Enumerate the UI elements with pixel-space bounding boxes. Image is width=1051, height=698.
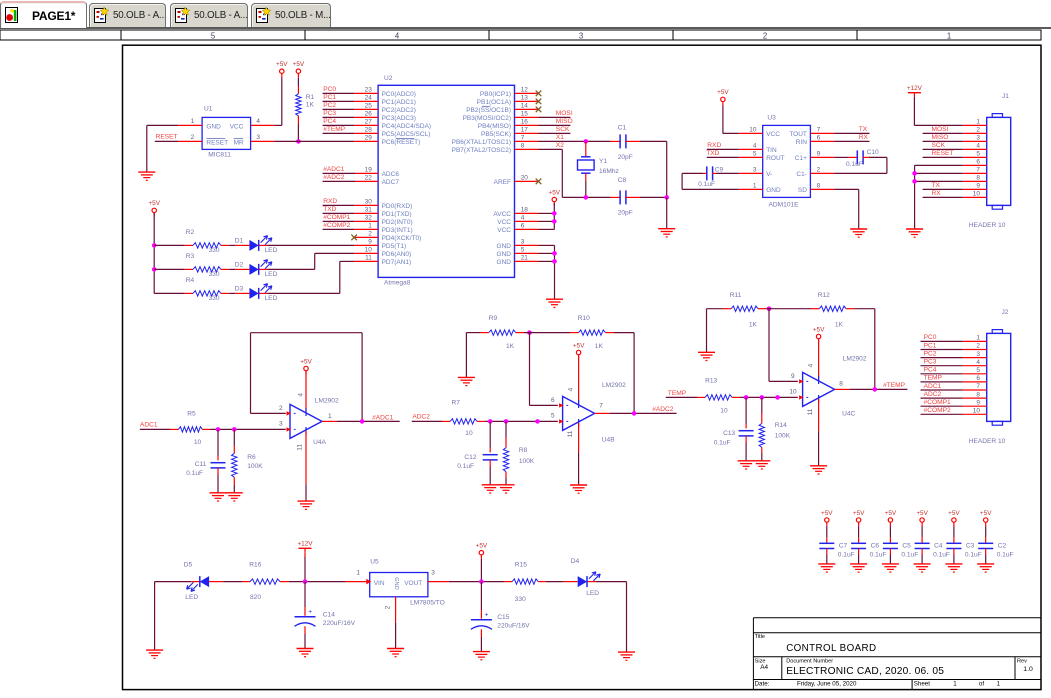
svg-text:24: 24 xyxy=(365,95,373,102)
svg-text:13: 13 xyxy=(521,95,529,102)
svg-text:PD0(RXD): PD0(RXD) xyxy=(382,203,413,210)
svg-text:330: 330 xyxy=(209,271,220,278)
svg-text:U1: U1 xyxy=(204,106,213,113)
svg-text:R14: R14 xyxy=(775,422,787,429)
svg-text:21: 21 xyxy=(521,255,529,262)
junction R9/R10 xyxy=(527,330,532,335)
wire TXD to U3 ROUT xyxy=(707,156,739,158)
U2 pin 11 PD7(AN1) xyxy=(354,260,378,262)
svg-text:10: 10 xyxy=(973,408,981,415)
wire C8 to right rail xyxy=(640,196,667,198)
U2 pin 3 GND xyxy=(515,244,539,246)
U2 pin 25 PC2(ADC2) xyxy=(354,108,378,110)
title block frame xyxy=(753,617,1041,619)
svg-text:3: 3 xyxy=(521,239,525,246)
wire +5V down to rail xyxy=(480,559,482,582)
svg-text:1K: 1K xyxy=(835,322,844,329)
capacitor C6 xyxy=(858,526,860,537)
resistor R16 xyxy=(242,581,250,583)
wire X2 (PB7 down and right) xyxy=(539,148,563,150)
svg-text:VCC: VCC xyxy=(497,219,511,226)
svg-text:ADC1: ADC1 xyxy=(924,383,942,390)
svg-text:330: 330 xyxy=(515,596,526,603)
svg-text:+5V: +5V xyxy=(293,61,305,68)
wire TEMP (J2) xyxy=(921,381,963,383)
op-amp U4B xyxy=(563,396,595,430)
svg-text:PB0(ICP1): PB0(ICP1) xyxy=(480,91,511,98)
U2 pin 18 AVCC xyxy=(515,212,539,214)
wire RX (J1) xyxy=(923,196,963,198)
svg-text:C1: C1 xyxy=(618,125,627,132)
svg-text:4: 4 xyxy=(521,215,525,222)
svg-text:AREF: AREF xyxy=(494,179,511,186)
svg-text:6: 6 xyxy=(976,159,980,166)
svg-text:VCC: VCC xyxy=(766,131,780,138)
resistor R3 xyxy=(185,268,193,270)
svg-text:C7: C7 xyxy=(839,543,848,550)
svg-text:1: 1 xyxy=(328,413,332,420)
svg-text:0.1uF: 0.1uF xyxy=(186,470,203,477)
svg-text:Title: Title xyxy=(755,634,765,640)
svg-text:2: 2 xyxy=(976,343,980,350)
svg-text:7: 7 xyxy=(599,403,603,410)
no-connect X on U2 pin 20 (AREF) xyxy=(536,179,542,185)
svg-text:10: 10 xyxy=(465,430,473,437)
svg-text:5: 5 xyxy=(521,247,525,254)
svg-text:SCK: SCK xyxy=(556,126,570,133)
svg-text:23: 23 xyxy=(365,87,373,94)
svg-text:C3: C3 xyxy=(966,543,975,550)
ground (J1) xyxy=(906,228,923,230)
svg-text:LED: LED xyxy=(265,271,278,278)
svg-text:HEADER 10: HEADER 10 xyxy=(969,438,1006,445)
svg-text:#COMP1: #COMP1 xyxy=(323,214,350,221)
svg-text:GND: GND xyxy=(766,187,781,194)
J2 pin 2 xyxy=(963,349,987,351)
wire RESET to U1 pin2 xyxy=(155,140,178,142)
svg-text:3: 3 xyxy=(976,351,980,358)
resistor R1 xyxy=(297,78,299,86)
svg-text:0.1uF: 0.1uF xyxy=(698,181,715,188)
svg-text:LM2902: LM2902 xyxy=(843,355,867,362)
svg-text:15: 15 xyxy=(521,111,529,118)
wire R4 to D3 xyxy=(229,292,235,294)
J1 pin 5 xyxy=(963,156,987,158)
svg-text:+5V: +5V xyxy=(276,61,288,68)
U1 pin 1 xyxy=(178,124,202,126)
svg-text:MIC811: MIC811 xyxy=(208,152,231,159)
svg-text:10: 10 xyxy=(365,247,373,254)
svg-text:R1: R1 xyxy=(306,94,315,101)
U2 pin 6 VCC xyxy=(515,228,539,230)
U2 pin 4 VCC xyxy=(515,220,539,222)
capacitor C2 xyxy=(985,526,987,537)
svg-text:2: 2 xyxy=(191,134,195,141)
svg-text:4: 4 xyxy=(976,143,980,150)
U2 pin 19 ADC6 xyxy=(354,172,378,174)
LED D3 xyxy=(235,292,249,294)
wire ADC1 (J2) xyxy=(921,389,963,391)
U2 pin 17 PB5(SCK) xyxy=(515,132,539,134)
svg-text:+5V: +5V xyxy=(948,510,960,517)
svg-text:1: 1 xyxy=(356,569,360,576)
wire ADC1 to R5 xyxy=(140,428,171,430)
U2 pin 5 GND xyxy=(515,252,539,254)
svg-text:GND: GND xyxy=(497,259,512,266)
svg-text:HEADER 10: HEADER 10 xyxy=(969,222,1006,229)
wire R16 to +12V junction xyxy=(289,581,346,583)
connector J2 body xyxy=(987,333,1011,421)
capacitor C5 xyxy=(889,526,891,537)
junction R6 tap xyxy=(232,427,237,432)
svg-text:0.1uF: 0.1uF xyxy=(714,439,731,446)
svg-text:PD5(T1): PD5(T1) xyxy=(382,243,407,250)
svg-text:3: 3 xyxy=(279,421,283,428)
svg-text:ADC6: ADC6 xyxy=(382,171,400,178)
svg-text:#ADC2: #ADC2 xyxy=(652,406,674,413)
svg-text:PB5(SCK): PB5(SCK) xyxy=(481,131,511,138)
svg-text:4: 4 xyxy=(298,393,305,397)
U1 pin 2 xyxy=(178,140,202,142)
svg-text:+: + xyxy=(485,612,489,619)
svg-text:PC6(RESET): PC6(RESET) xyxy=(382,139,421,146)
U3 pin 6 RIN xyxy=(810,140,834,142)
wire U1 pin1 to ground xyxy=(147,124,178,126)
U2 pin 13 PB1(OC1A) xyxy=(515,100,539,102)
resistor R2 xyxy=(185,244,193,246)
svg-text:5: 5 xyxy=(211,31,216,40)
ground (D5) xyxy=(146,649,163,651)
svg-text:ADC7: ADC7 xyxy=(382,179,400,186)
U2 pin 7 PB6(XTAL1/TOSC1) xyxy=(515,140,539,142)
svg-text:LM2902: LM2902 xyxy=(315,397,339,404)
svg-text:RESET: RESET xyxy=(156,134,178,141)
U2 pin 20 AREF xyxy=(515,180,539,182)
op-amp U4A xyxy=(290,404,322,438)
resistor R12 xyxy=(811,308,819,310)
ground (C13) xyxy=(738,460,755,462)
U3 pin 4 TIN xyxy=(739,148,763,150)
svg-text:PC0: PC0 xyxy=(323,86,336,93)
svg-text:0.1uF: 0.1uF xyxy=(965,551,982,558)
capacitor C11 xyxy=(217,429,219,456)
wire RESET (J1) xyxy=(923,156,963,158)
wire MISO (J1) xyxy=(923,140,963,142)
svg-text:1: 1 xyxy=(947,31,951,40)
wire SCK (J1) xyxy=(923,148,963,150)
ground (U3 SD) xyxy=(850,228,867,230)
svg-text:PD6(AN0): PD6(AN0) xyxy=(382,251,412,258)
wire R9-R10 row xyxy=(524,332,570,334)
U2 pin 8 PB7(XTAL2/TOSC2) xyxy=(515,148,539,150)
U3 pin 9 C1+ xyxy=(810,156,834,158)
svg-text:TOUT: TOUT xyxy=(789,131,807,138)
svg-text:RESET: RESET xyxy=(932,150,954,157)
svg-text:100K: 100K xyxy=(519,458,535,465)
svg-text:#ADC2: #ADC2 xyxy=(323,174,345,181)
svg-text:1: 1 xyxy=(191,118,195,125)
svg-text:4: 4 xyxy=(395,31,400,40)
svg-text:4: 4 xyxy=(753,143,757,150)
svg-text:#COMP2: #COMP2 xyxy=(924,407,951,414)
svg-text:ADC2: ADC2 xyxy=(924,391,942,398)
svg-text:7: 7 xyxy=(976,167,980,174)
U4C output pin 8 xyxy=(835,388,850,390)
wire J1 pin6 pin7 pin8 to ground xyxy=(915,164,963,166)
svg-text:100K: 100K xyxy=(247,463,263,470)
wire R13 to opamp U4C pin10 xyxy=(740,396,798,398)
U5 pin 2 GND xyxy=(395,597,397,623)
U4A pin 11 power to ground xyxy=(305,427,307,435)
svg-text:5: 5 xyxy=(976,367,980,374)
U2 pin 12 PB0(ICP1) xyxy=(515,92,539,94)
junction C12 tap xyxy=(488,419,493,424)
ground (R6) xyxy=(226,492,243,494)
junction J1 pin8 xyxy=(912,179,917,184)
svg-text:C14: C14 xyxy=(323,611,335,618)
LED D4 xyxy=(564,581,578,583)
wire PC2 (J2) xyxy=(921,357,963,359)
svg-text:VCC: VCC xyxy=(497,227,511,234)
resistor R6 xyxy=(233,429,235,445)
J1 pin 7 xyxy=(963,172,987,174)
U4C pin 4 power xyxy=(818,339,820,380)
svg-text:+5V: +5V xyxy=(853,510,865,517)
svg-text:31: 31 xyxy=(365,207,373,214)
svg-text:+: + xyxy=(308,609,312,616)
U4C pin 11 power to ground xyxy=(818,395,820,403)
svg-text:SCK: SCK xyxy=(932,142,946,149)
wire bottom rail left end xyxy=(155,581,192,583)
wire R3 to D2 xyxy=(229,268,235,270)
svg-text:V-: V- xyxy=(766,171,772,178)
crystal Y1 xyxy=(585,141,587,157)
svg-text:11: 11 xyxy=(807,408,814,415)
svg-text:9: 9 xyxy=(817,151,821,158)
wire #ADC2 (ADC7) xyxy=(323,180,355,182)
svg-text:U5: U5 xyxy=(370,558,379,565)
svg-text:+12V: +12V xyxy=(297,541,313,548)
ground (C5) xyxy=(882,563,899,565)
svg-text:28: 28 xyxy=(365,127,373,134)
svg-text:8: 8 xyxy=(839,381,843,388)
wire R12 to output rail xyxy=(854,308,874,310)
svg-text:1: 1 xyxy=(997,681,1001,688)
svg-text:C9: C9 xyxy=(715,167,724,174)
tab 50.OLB 1 xyxy=(89,3,166,27)
capacitor C1 xyxy=(610,140,621,142)
svg-text:18: 18 xyxy=(521,207,529,214)
svg-text:SD: SD xyxy=(798,187,807,194)
svg-text:R8: R8 xyxy=(519,447,528,454)
svg-text:#ADC1: #ADC1 xyxy=(323,166,345,173)
wire C10 to U3 C1- xyxy=(869,156,887,158)
wire +12V to J1 pin1 xyxy=(913,97,915,126)
svg-text:9: 9 xyxy=(976,399,980,406)
U1 pin 4 xyxy=(251,124,275,126)
capacitor C4 xyxy=(921,526,923,537)
svg-text:LED: LED xyxy=(586,590,599,597)
wire +12V down xyxy=(304,552,306,557)
junction VCC pin4 xyxy=(552,219,557,224)
svg-text:RX: RX xyxy=(859,134,869,141)
LED D2 xyxy=(235,268,249,270)
wire #COMP2 (J2) xyxy=(921,413,963,415)
wire feedback riser to U4C pin9 xyxy=(768,309,770,382)
svg-text:RX: RX xyxy=(932,190,942,197)
svg-text:C8: C8 xyxy=(618,177,627,184)
ground (U4A pin11) xyxy=(298,500,315,502)
svg-text:PC1(ADC1): PC1(ADC1) xyxy=(382,99,416,106)
svg-text:2: 2 xyxy=(279,405,283,412)
svg-text:2: 2 xyxy=(976,127,980,134)
wire RX from U3 RIN xyxy=(834,140,869,142)
svg-text:PC0: PC0 xyxy=(924,334,937,341)
svg-text:MOSI: MOSI xyxy=(932,126,949,133)
J2 pin 6 xyxy=(963,381,987,383)
J2 pin 5 xyxy=(963,373,987,375)
svg-text:LED: LED xyxy=(185,594,198,601)
ground (C3) xyxy=(945,563,962,565)
svg-text:+5V: +5V xyxy=(573,342,585,349)
wire R9 left to ground xyxy=(465,333,467,378)
junction AVCC xyxy=(552,211,557,216)
junction U4B pin5 wire xyxy=(535,419,540,424)
capacitor C14 (polarized) xyxy=(304,582,306,607)
svg-text:C2: C2 xyxy=(998,543,1007,550)
svg-text:U3: U3 xyxy=(767,115,776,122)
svg-text:Atmega8: Atmega8 xyxy=(384,279,411,286)
svg-text:+5V: +5V xyxy=(148,200,160,207)
svg-text:PC2: PC2 xyxy=(323,102,336,109)
svg-text:7: 7 xyxy=(976,383,980,390)
ground (U4B pin11) xyxy=(570,484,587,486)
svg-text:1: 1 xyxy=(753,183,757,190)
svg-text:CONTROL BOARD: CONTROL BOARD xyxy=(786,643,876,654)
svg-text:PC4: PC4 xyxy=(323,118,336,125)
J1 pin 10 xyxy=(963,196,987,198)
wire D1 to U2 PD5 xyxy=(267,244,354,246)
svg-text:C15: C15 xyxy=(497,614,509,621)
resistor R13 xyxy=(697,396,705,398)
ground (C12) xyxy=(482,484,499,486)
wire U5 out to +5V junction xyxy=(449,581,504,583)
U2 pin 27 PC4(ADC4/SDA) xyxy=(354,124,378,126)
svg-text:2: 2 xyxy=(384,605,391,609)
svg-text:330: 330 xyxy=(209,295,220,302)
junction X1/Y1 top xyxy=(584,139,589,144)
svg-text:32: 32 xyxy=(365,215,373,222)
svg-text:PC4(ADC4/SDA): PC4(ADC4/SDA) xyxy=(382,123,431,130)
svg-text:20pF: 20pF xyxy=(618,210,633,217)
svg-text:PD3(INT1): PD3(INT1) xyxy=(382,227,413,234)
svg-text:0.1uF: 0.1uF xyxy=(870,551,887,558)
wire PC4 xyxy=(323,124,355,126)
ground (U1) xyxy=(138,171,155,173)
svg-text:R15: R15 xyxy=(515,561,527,568)
svg-text:7: 7 xyxy=(521,135,525,142)
U1 pin 3 xyxy=(251,140,275,142)
svg-text:Rev: Rev xyxy=(1017,659,1027,665)
ground (R11) xyxy=(698,351,715,353)
wire R10 to output rail xyxy=(614,332,634,334)
J2 pin 8 xyxy=(963,397,987,399)
svg-text:+5V: +5V xyxy=(980,510,992,517)
connector J1 body xyxy=(987,117,1011,205)
svg-text:PC3: PC3 xyxy=(323,110,336,117)
wire TXD xyxy=(323,212,355,214)
svg-text:5: 5 xyxy=(753,151,757,158)
junction GND pin5 xyxy=(552,251,557,256)
svg-text:U2: U2 xyxy=(384,75,393,82)
svg-text:0.1uF: 0.1uF xyxy=(997,551,1014,558)
junction U4A output xyxy=(360,419,365,424)
wire RXD xyxy=(323,204,355,206)
svg-text:17: 17 xyxy=(521,127,529,134)
svg-text:C1-: C1- xyxy=(796,171,806,178)
J2 pin 9 xyxy=(963,405,987,407)
wire PC3 (J2) xyxy=(921,365,963,367)
wire MOSI (J1) xyxy=(923,132,963,134)
svg-text:#COMP1: #COMP1 xyxy=(924,399,951,406)
svg-text:4: 4 xyxy=(568,387,575,391)
junction U4B output xyxy=(632,411,637,416)
resistor R15 xyxy=(504,581,512,583)
wire R11-R12 row xyxy=(766,308,811,310)
U2 pin 30 PD0(RXD) xyxy=(354,204,378,206)
svg-text:PB1(OC1A): PB1(OC1A) xyxy=(477,99,511,106)
svg-text:10: 10 xyxy=(973,191,981,198)
J1 pin 4 xyxy=(963,148,987,150)
svg-text:PC3: PC3 xyxy=(924,359,937,366)
wire R5 to opamp U4A pin3 xyxy=(211,428,286,430)
svg-text:C6: C6 xyxy=(871,543,880,550)
svg-text:RIN: RIN xyxy=(796,139,808,146)
capacitor C12 xyxy=(489,421,491,448)
ground (C11) xyxy=(210,492,227,494)
U2 pin 10 PD6(AN0) xyxy=(354,252,378,254)
svg-text:PD4(XCK/T0): PD4(XCK/T0) xyxy=(382,235,422,242)
U4B pin 4 power xyxy=(578,355,580,404)
junction R8 tap xyxy=(504,419,509,424)
svg-text:PD1(TXD): PD1(TXD) xyxy=(382,211,412,218)
J2 pin 1 xyxy=(963,340,987,342)
svg-text:8: 8 xyxy=(521,143,525,150)
svg-text:R4: R4 xyxy=(186,277,195,284)
wire D4 to ground xyxy=(596,581,627,583)
svg-text:2: 2 xyxy=(817,167,821,174)
wire TEMP to R13 xyxy=(666,396,697,398)
svg-text:R13: R13 xyxy=(705,377,717,384)
ground (C2) xyxy=(977,563,994,565)
junction C13 tap xyxy=(744,395,749,400)
svg-text:TXD: TXD xyxy=(323,206,336,213)
LED D1 xyxy=(235,244,249,246)
tab 50.OLB 3 xyxy=(251,3,331,27)
svg-text:11: 11 xyxy=(365,255,372,262)
svg-text:C13: C13 xyxy=(723,430,735,437)
svg-text:LED: LED xyxy=(265,295,278,302)
svg-text:+5V: +5V xyxy=(300,358,312,365)
svg-text:6: 6 xyxy=(551,397,555,404)
wire PC0 xyxy=(323,92,355,94)
svg-text:GND: GND xyxy=(393,577,399,589)
svg-text:U4C: U4C xyxy=(842,410,855,417)
svg-text:PB6(XTAL1/TOSC1): PB6(XTAL1/TOSC1) xyxy=(452,139,511,146)
svg-text:D4: D4 xyxy=(571,558,580,565)
svg-text:PC1: PC1 xyxy=(924,342,937,349)
svg-text:PC2(ADC2): PC2(ADC2) xyxy=(382,107,416,114)
